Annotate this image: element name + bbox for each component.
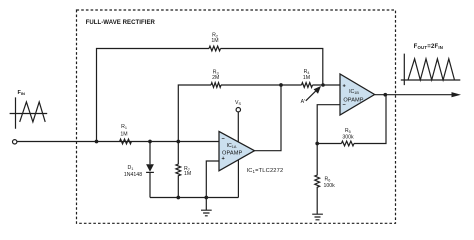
resistor R3 [211, 83, 221, 88]
node: R7 on rail [176, 196, 180, 200]
ground [201, 198, 212, 216]
node: D1 junction [148, 140, 152, 144]
svg-text:FOUT=2FIN: FOUT=2FIN [414, 44, 444, 50]
wire: output with arrowhead [375, 94, 453, 96]
node: output junction [383, 93, 387, 97]
diode D1 [146, 164, 154, 172]
input terminal [13, 140, 17, 144]
resistor R7 [176, 142, 181, 198]
svg-text:100k: 100k [324, 183, 336, 189]
wire: R2 loop (left leg up, top run, down to node A') [97, 49, 323, 142]
svg-text:OPAMP: OPAMP [343, 97, 363, 103]
svg-text:FULL-WAVE RECTIFIER: FULL-WAVE RECTIFIER [86, 20, 156, 26]
svg-text:1M: 1M [120, 132, 127, 138]
node: riser junction [279, 83, 283, 87]
ground [312, 214, 323, 220]
resistor R6 [315, 144, 320, 214]
wire: VS to IC1A V+ pin [237, 112, 239, 142]
resistor R4 [302, 83, 313, 88]
wire: D1 branch down [149, 142, 151, 198]
svg-text:A′: A′ [301, 99, 305, 105]
wiper arrow to node A' [306, 91, 316, 101]
resistor R2 [209, 46, 221, 51]
svg-text:1N4148: 1N4148 [124, 172, 142, 178]
op-amp IC1A [219, 131, 255, 170]
svg-text:1M: 1M [211, 38, 218, 44]
svg-text:1M: 1M [184, 171, 191, 177]
node A' [321, 83, 325, 87]
wire: IC1B inverting input to feedback junction [317, 105, 340, 144]
wire: ground rail under D1/R7 [150, 197, 238, 199]
svg-text:FIN: FIN [18, 90, 26, 96]
resistor R1 [120, 139, 132, 144]
dashed enclosure box [77, 10, 396, 223]
node: summing node on main wire [176, 140, 180, 144]
wire: IC1A output riser to R3/R4 run [255, 85, 282, 151]
node: R2 tap junction [95, 140, 99, 144]
input waveform F_IN [10, 90, 48, 129]
wire: input to IC1A inverting input [17, 141, 219, 143]
wire: IC1A non-inverting input to rail [206, 161, 219, 198]
node: R5/R6 junction [315, 142, 319, 146]
svg-text:IC1=TLC2272: IC1=TLC2272 [247, 168, 284, 174]
svg-text:OPAMP: OPAMP [222, 150, 242, 156]
node: ground tap on rail [204, 196, 208, 200]
svg-text:1M: 1M [303, 75, 310, 81]
wire: IC1A V- pin to rail [237, 160, 239, 198]
svg-text:2M: 2M [212, 75, 219, 81]
op-amp IC1B [340, 74, 375, 115]
svg-text:300k: 300k [342, 135, 354, 141]
wire: summing node leg and R3/R4 run [178, 85, 340, 142]
wire: R5 feedback run [317, 95, 386, 144]
resistor R5 [341, 141, 354, 146]
